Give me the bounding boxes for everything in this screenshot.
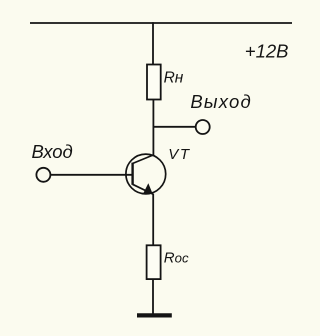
terminal: input bbox=[36, 168, 50, 182]
svg-text:+12В: +12В bbox=[245, 40, 289, 61]
svg-text:VT: VT bbox=[168, 146, 191, 163]
ground bbox=[137, 313, 172, 317]
wire: input lead to base bbox=[51, 174, 133, 176]
collector lead (diagonal) bbox=[133, 155, 154, 164]
transistor body circle bbox=[126, 154, 166, 194]
base bar bbox=[131, 163, 133, 185]
wire: Rн bottom to collector bbox=[152, 100, 154, 155]
transistor VT (NPN) bbox=[126, 154, 166, 194]
emitter arrow bbox=[144, 184, 152, 193]
svg-text:Rос: Rос bbox=[164, 250, 189, 267]
wire: Rос bottom to ground bbox=[152, 280, 154, 314]
svg-text:Выход: Выход bbox=[190, 91, 252, 112]
wire: output stub bbox=[153, 126, 196, 128]
svg-text:Вход: Вход bbox=[32, 141, 73, 162]
terminal: output bbox=[196, 120, 210, 134]
emitter lead (diagonal) bbox=[133, 184, 153, 194]
svg-text:Rн: Rн bbox=[164, 69, 184, 86]
wire: +12V top rail bbox=[30, 22, 292, 24]
wire: emitter to Rос top bbox=[152, 194, 154, 245]
wire: rail to Rн top bbox=[152, 22, 154, 64]
resistor Rн bbox=[147, 65, 161, 100]
resistor Rос bbox=[147, 245, 161, 279]
